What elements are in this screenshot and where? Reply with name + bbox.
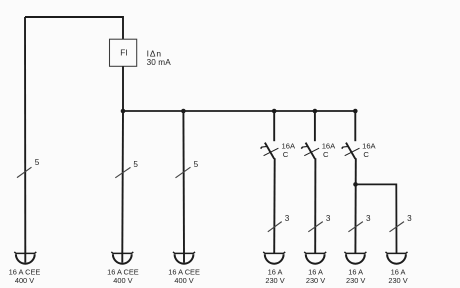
- label 16A C (breaker Q2): [322, 141, 336, 159]
- svg-text:16 A: 16 A: [348, 267, 363, 276]
- wire: branch to circuit 7: [356, 184, 397, 253]
- node: bus tap circuit 3: [181, 109, 186, 114]
- wire: supply feed top run: [25, 17, 123, 39]
- label 16A C (breaker Q1): [282, 141, 296, 159]
- socket X6: [344, 252, 366, 264]
- wire: circuit 1 feeder: [24, 17, 26, 253]
- cable marker: circuit 3 five-core slash: [176, 167, 191, 178]
- svg-text:16 A: 16 A: [268, 267, 283, 276]
- svg-text:5: 5: [35, 158, 40, 167]
- node: bus junction at FI drop: [121, 109, 126, 114]
- svg-text:16A: 16A: [362, 141, 376, 150]
- svg-text:IΔn: IΔn: [147, 48, 162, 58]
- label 16 A 230 V (socket X4): [265, 267, 284, 285]
- svg-text:FI: FI: [120, 49, 127, 58]
- wire: circuit 3 feeder: [182, 111, 185, 253]
- breaker Q1 16A C: [261, 143, 279, 159]
- cable marker: circuit 2 five-core slash: [115, 167, 130, 177]
- svg-text:5: 5: [194, 160, 199, 169]
- svg-text:230 V: 230 V: [265, 276, 284, 285]
- wire: distribution bus: [123, 110, 355, 112]
- svg-text:30 mA: 30 mA: [147, 58, 172, 67]
- wire: FI output down to bus: [122, 66, 124, 111]
- cable marker: circuit 6 three-core slash: [348, 222, 363, 232]
- label 16 A 230 V (socket X7): [388, 267, 407, 285]
- node: branch junction to circuit 7: [353, 182, 358, 187]
- label 16 A CEE 400 V (socket X3): [168, 267, 200, 285]
- node: bus tap circuit 4: [272, 109, 277, 114]
- svg-text:5: 5: [133, 160, 138, 169]
- socket X5: [304, 252, 326, 264]
- wire: circuit 2 feeder: [121, 111, 124, 253]
- wire: circuit 6 drop from bus: [354, 111, 356, 141]
- label 16 A CEE 400 V (socket X1): [9, 267, 41, 285]
- breaker Q2 16A C: [301, 143, 319, 159]
- svg-text:16 A: 16 A: [391, 267, 406, 276]
- label 16 A CEE 400 V (socket X2): [107, 267, 139, 285]
- wire: circuit 4 drop from bus: [273, 111, 275, 141]
- svg-text:3: 3: [285, 214, 290, 223]
- svg-text:16 A CEE: 16 A CEE: [9, 267, 41, 276]
- socket X7: [386, 252, 408, 264]
- label 16 A 230 V (socket X5): [306, 267, 325, 285]
- cable marker: circuit 5 three-core slash: [308, 222, 323, 232]
- label 16A C (breaker Q3): [362, 141, 376, 159]
- svg-text:230 V: 230 V: [346, 276, 365, 285]
- svg-text:230 V: 230 V: [388, 276, 407, 285]
- svg-text:16A: 16A: [282, 141, 296, 150]
- svg-text:16A: 16A: [322, 141, 336, 150]
- svg-text:16 A CEE: 16 A CEE: [107, 267, 139, 276]
- node: bus tap circuit 5: [313, 109, 318, 114]
- wire: circuit 6 breaker to socket: [354, 158, 356, 253]
- cable marker: circuit 7 three-core slash: [390, 222, 405, 232]
- socket X2 CEE: [111, 252, 133, 264]
- svg-text:400 V: 400 V: [113, 276, 132, 285]
- cable marker: circuit 4 three-core slash: [268, 222, 282, 232]
- svg-text:400 V: 400 V: [174, 276, 193, 285]
- RCD FI body: [110, 39, 137, 66]
- svg-text:C: C: [363, 150, 369, 159]
- svg-text:3: 3: [407, 214, 412, 223]
- svg-text:230 V: 230 V: [306, 276, 325, 285]
- wire: circuit 4 breaker to socket: [273, 158, 276, 253]
- socket X1 CEE: [14, 252, 36, 264]
- wire: circuit 5 breaker to socket: [314, 158, 316, 253]
- svg-text:16 A CEE: 16 A CEE: [168, 267, 200, 276]
- svg-text:400 V: 400 V: [15, 276, 34, 285]
- node: bus end tap circuit 6: [353, 109, 358, 114]
- svg-text:3: 3: [366, 214, 371, 223]
- socket X4: [263, 252, 285, 264]
- breaker Q3 16A C: [342, 143, 360, 159]
- label 16 A 230 V (socket X6): [346, 267, 365, 285]
- label IΔn 30 mA: [147, 48, 172, 67]
- svg-text:3: 3: [326, 214, 331, 223]
- svg-text:C: C: [283, 150, 289, 159]
- wire: circuit 5 drop from bus: [314, 111, 316, 141]
- socket X3 CEE: [173, 252, 195, 264]
- svg-text:16 A: 16 A: [308, 267, 323, 276]
- cable marker: circuit 1 five-core slash: [17, 167, 32, 177]
- svg-text:C: C: [323, 150, 329, 159]
